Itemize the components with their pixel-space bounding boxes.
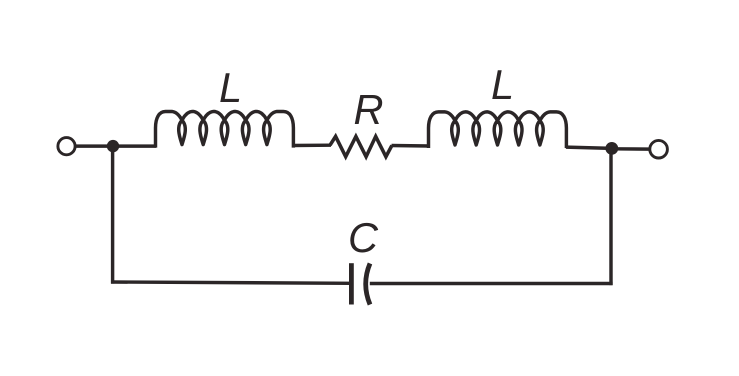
wire node A to inductor L1 (113, 144, 156, 147)
wire node B to right terminal (612, 147, 650, 151)
label L (inductor L1) (219, 67, 242, 109)
inductor L2 (429, 112, 567, 148)
wire bottom right (capacitor C to node B) (370, 282, 613, 285)
right terminal T2 (650, 140, 668, 158)
wire L2 to node B (566, 147, 612, 148)
wire right vertical (node B down) (609, 148, 612, 285)
capacitor C right plate (curved) (366, 263, 370, 304)
wire L1 to resistor R (292, 143, 331, 147)
inductor L1 (156, 112, 294, 148)
node B (right junction dot) (605, 142, 618, 155)
left terminal T1 (58, 138, 75, 155)
label R (resistor) (354, 89, 384, 131)
label C (capacitor) (348, 217, 378, 259)
wire resistor R to inductor L2 (392, 144, 430, 148)
label L (inductor L2) (491, 64, 514, 106)
node A (left junction dot) (107, 140, 119, 152)
capacitor C left plate (349, 263, 354, 304)
wire bottom left (to capacitor C) (111, 282, 351, 283)
wire left vertical (node A down) (111, 146, 114, 284)
wire left terminal to node A (75, 144, 113, 147)
resistor R (330, 136, 392, 156)
